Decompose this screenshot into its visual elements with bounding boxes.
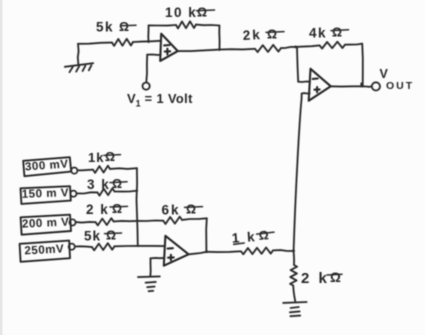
wire U2 non-inverting input jog (302, 92, 310, 94)
wire R8 to U3 inverting input (115, 245, 165, 247)
wire V4 to R7 (76, 221, 96, 224)
wire U3 output to R10 (189, 252, 207, 255)
svg-text:1k: 1k (88, 150, 104, 165)
svg-text:Ω: Ω (332, 26, 342, 40)
junction at U3 output node (205, 250, 208, 253)
svg-text:4k: 4k (309, 26, 327, 41)
wire U2 output to VOUT (331, 85, 363, 87)
wire R2 to feedback right vertical (196, 24, 219, 27)
junction node A (294, 46, 297, 49)
wire feedback left vertical (U1 - node up) (147, 25, 149, 42)
junction node B (292, 250, 295, 253)
ground G1 (65, 63, 93, 72)
svg-text:5k: 5k (96, 20, 114, 35)
junction at U1 output node (218, 48, 221, 51)
svg-text:Ω: Ω (105, 150, 115, 164)
wire R11 to ground G3 (293, 286, 295, 302)
label 5kΩ for R1 (96, 20, 136, 35)
wire V2 to R5 (77, 169, 93, 172)
wire feedback right vertical down to U1 output (218, 26, 220, 50)
voltage source V5 250 mV (20, 241, 75, 262)
resistor R7 2kΩ (96, 218, 114, 225)
svg-text:250mV: 250mV (24, 242, 65, 257)
svg-text:200 m V: 200 m V (22, 216, 70, 231)
wire V3 to R6 (77, 192, 98, 193)
svg-text:Ω: Ω (112, 202, 122, 216)
svg-text:Ω: Ω (330, 270, 341, 285)
wire R9 to feedback vertical (182, 218, 207, 220)
wire U3 non-inverting input to ground (151, 257, 165, 259)
wire V5 to R8 (75, 245, 92, 248)
wire R6 to bus (115, 190, 138, 193)
resistor R2 10kΩ (176, 21, 196, 28)
voltage source V4 200 mV (21, 215, 76, 235)
svg-text:V: V (380, 67, 389, 81)
resistor R3 2kΩ (255, 45, 281, 52)
junction at U2 output node (360, 83, 362, 86)
resistor R6 3kΩ (97, 188, 114, 195)
svg-text:Ω: Ω (258, 228, 269, 243)
resistor R10 1kΩ (241, 248, 273, 255)
ground G3 (283, 302, 306, 316)
svg-text:2k: 2k (242, 27, 262, 43)
wire R3 to node A (281, 47, 296, 48)
label 5kΩ for R8 (84, 229, 122, 244)
wire R10 to node B (274, 249, 294, 252)
resistor R8 5kΩ (92, 243, 115, 250)
wire R1 to U1 inverting input (133, 41, 161, 42)
label 4kΩ for R4 (309, 26, 349, 41)
wire R5 to bus (110, 167, 137, 170)
op-amp U2 (309, 69, 331, 101)
svg-text:2 k: 2 k (301, 270, 329, 287)
wire feedback top to R2 (149, 24, 176, 27)
resistor R5 1kΩ (93, 166, 110, 173)
op-amp U3 (164, 236, 189, 266)
label 2 kΩ for R7 (86, 202, 128, 217)
terminal circle VOUT (372, 82, 380, 90)
op-amp U1 (160, 34, 178, 61)
wire node A to R4 (296, 45, 320, 47)
ground G2 (138, 276, 160, 291)
svg-text:Ω: Ω (106, 229, 116, 243)
wire R7 to bus and to R9 (114, 220, 138, 223)
wire ground to R1 input (78, 43, 112, 44)
svg-text:Ω: Ω (197, 6, 207, 20)
label 6kΩ for R9 (162, 203, 203, 218)
terminal circle of V1 (143, 83, 150, 90)
voltage source V3 150 mV (21, 186, 77, 204)
wire R4 to output node (345, 44, 362, 45)
svg-text:150 m V: 150 m V (22, 186, 70, 201)
label 3 kΩ for R6 (87, 177, 127, 192)
label 1kΩ for R5 (88, 150, 121, 165)
svg-text:5k: 5k (84, 229, 101, 244)
wire long vertical from U2 + input down to node B (294, 94, 302, 251)
wire node A down to U2 inverting input (297, 47, 298, 81)
wire node B down to R11 (293, 251, 296, 265)
svg-text:3 k: 3 k (87, 177, 110, 192)
voltage source V2 300 mV (23, 157, 77, 176)
wire U1 non-inverting input to V1 (147, 54, 161, 57)
svg-text:10 k: 10 k (165, 5, 197, 20)
label 10 kΩ for R2 (165, 5, 215, 20)
resistor R1 5kΩ (112, 39, 133, 46)
svg-text:Ω: Ω (267, 28, 277, 42)
label 2 kΩ for R11 (301, 270, 342, 287)
wire U1 output to R3 (178, 50, 220, 52)
svg-text:Ω: Ω (186, 203, 196, 217)
svg-text:2 k: 2 k (86, 202, 109, 217)
label 1 kΩ for R10 (231, 228, 274, 246)
resistor R11 2kΩ vertical (290, 265, 297, 286)
svg-text:6k: 6k (162, 203, 181, 218)
wire bus vertical joining input resistors (137, 168, 138, 246)
svg-text:Ω: Ω (119, 20, 129, 34)
svg-text:Ω: Ω (112, 177, 122, 191)
label 2kΩ for R3 (242, 27, 284, 43)
label VOUT (380, 67, 415, 92)
resistor R4 4kΩ (320, 42, 346, 49)
svg-text:OUT: OUT (386, 80, 414, 92)
resistor R9 6kΩ (163, 217, 182, 224)
